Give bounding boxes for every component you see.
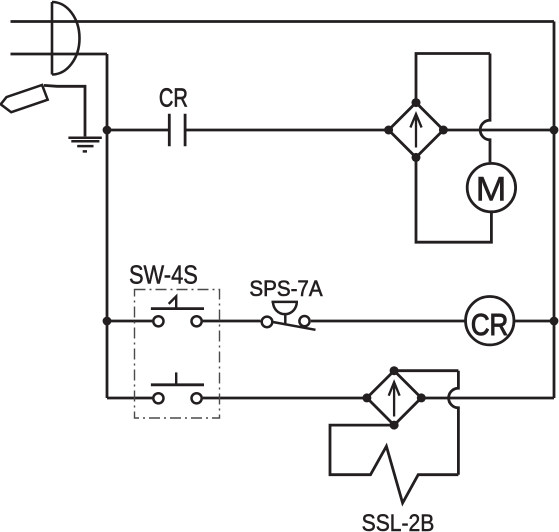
wire rung3 left bbox=[107, 397, 152, 400]
ground bbox=[68, 138, 101, 152]
motor M1 bbox=[467, 163, 515, 211]
wire M loop right with crossover bbox=[480, 54, 490, 163]
pressure switch SPS-7A bbox=[262, 317, 273, 328]
pushbutton PB2 (SW-4S lower) bbox=[153, 393, 163, 403]
svg-text:SPS-7A: SPS-7A bbox=[249, 275, 323, 301]
svg-text:CR: CR bbox=[159, 83, 188, 112]
wire right rail bbox=[553, 22, 556, 399]
enclosure SW-4S dashed box bbox=[135, 290, 220, 419]
wire SSL right vertical with crossover bbox=[449, 371, 459, 475]
arrow FS1 bbox=[410, 114, 421, 148]
node left rail rung1 bbox=[103, 126, 112, 135]
plug P1 bbox=[1, 85, 48, 112]
flow device FS1 diamond bbox=[389, 103, 444, 158]
svg-text:SW-4S: SW-4S bbox=[129, 261, 198, 290]
svg-text:SSL-2B: SSL-2B bbox=[362, 509, 435, 532]
relay coil CR1 bbox=[466, 297, 514, 345]
wire L2 second line bbox=[11, 53, 108, 56]
wire rung3 mid bbox=[203, 397, 367, 400]
wire rung2 right bbox=[514, 320, 554, 323]
node FS2 top bbox=[390, 366, 399, 375]
node FS1 bottom bbox=[412, 153, 421, 162]
sensor SSL-2B zigzag bbox=[330, 425, 458, 503]
wire left rail bbox=[106, 54, 109, 398]
node FS2 right bbox=[417, 393, 426, 402]
svg-text:CR: CR bbox=[471, 308, 508, 343]
actuator cup SPS-7A bbox=[272, 302, 299, 324]
node FS1 top bbox=[412, 98, 421, 107]
node FS2 left bbox=[362, 393, 371, 402]
wire M bottom bbox=[416, 157, 491, 242]
pushbutton PB1 (SW-4S upper) bbox=[153, 316, 163, 326]
node rung1 right rail bbox=[550, 126, 559, 135]
node rung2 right rail bbox=[550, 317, 559, 326]
arrow FS2 bbox=[389, 382, 400, 416]
wire rung3 right bbox=[421, 397, 554, 400]
wire rung1 right bbox=[443, 129, 554, 132]
wire rung2 mid1 bbox=[203, 320, 261, 323]
blade SPS-7A bbox=[273, 322, 316, 330]
wire rung2 mid2 bbox=[311, 320, 466, 323]
wire SSL loop top right bbox=[394, 369, 458, 372]
wire rung1 left bbox=[107, 129, 169, 132]
node left rail rung2 bbox=[103, 317, 112, 326]
wire plug to ground bbox=[44, 85, 85, 136]
flow device FS2 diamond bbox=[367, 371, 421, 425]
wire rung2 left bbox=[107, 320, 152, 323]
contact CR (relay contact) bbox=[169, 114, 185, 146]
wire L1 top line bbox=[11, 20, 555, 23]
node FS2 bottom bbox=[390, 421, 399, 430]
node FS1 left bbox=[384, 126, 393, 135]
wire M loop top bbox=[416, 54, 490, 103]
wire rung1 middle bbox=[185, 129, 389, 132]
svg-text:M: M bbox=[476, 170, 507, 208]
node FS1 right bbox=[439, 126, 448, 135]
horn annunciator bbox=[52, 2, 80, 75]
